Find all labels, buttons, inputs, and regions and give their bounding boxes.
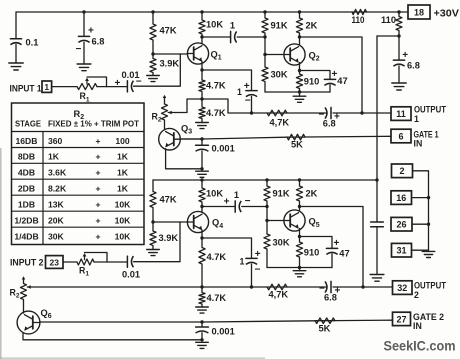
label +30V <box>434 8 460 19</box>
node: Q6 base node <box>200 320 203 323</box>
terminal box 6 (GATE 1 IN) <box>391 129 411 143</box>
resistor 3.9K (Q4 base lower) <box>150 222 179 250</box>
svg-text:IN: IN <box>413 321 422 331</box>
svg-text:4DB: 4DB <box>18 168 35 178</box>
svg-text:18: 18 <box>414 7 424 17</box>
wire: Q2 emitter to 47 cap <box>300 71 331 80</box>
svg-text:30K: 30K <box>48 232 65 242</box>
svg-text:91K: 91K <box>271 21 288 31</box>
svg-text:+: + <box>95 136 100 146</box>
ground (rail bottom) <box>370 275 384 282</box>
svg-text:10K: 10K <box>115 200 132 210</box>
wire: +30V vertical rail to channel 2 <box>376 36 378 275</box>
ground (under emitter 4.7K) <box>196 123 209 129</box>
potentiometer R1 (channel 2) <box>77 253 127 278</box>
wire: 91K to Q5 base node <box>266 207 268 221</box>
resistor 2K (Q5 collector) <box>296 180 317 207</box>
resistor 5K (gate 2) <box>315 318 335 333</box>
svg-text:2K: 2K <box>306 21 318 31</box>
wire: Q1 collector lead <box>201 37 203 44</box>
label GATE 2 IN <box>413 312 444 331</box>
svg-text:+: + <box>402 50 408 61</box>
svg-text:FIXED ± 1% + TRIM POT: FIXED ± 1% + TRIM POT <box>48 118 139 128</box>
potentiometer R1 (channel 1) <box>77 78 127 104</box>
wire: Q2 collector lead <box>299 37 301 45</box>
potentiometer R2 (channel 1) <box>152 95 168 129</box>
capacitor 1 (Q1 emitter, electrolytic) <box>237 81 257 113</box>
node: feedback junction ch1 <box>200 97 203 100</box>
wire: channel 2 supply rail <box>153 179 377 181</box>
capacitor 0.01 (channel 1 coupling) <box>115 70 142 92</box>
wire: gate 1 to 5K to box <box>202 136 391 139</box>
svg-text:30K: 30K <box>271 70 288 80</box>
svg-text:+: + <box>95 232 100 242</box>
svg-text:27: 27 <box>396 314 406 324</box>
svg-text:1K: 1K <box>117 184 129 194</box>
svg-text:+: + <box>95 168 100 178</box>
wire: Q5 collector to output riser <box>300 207 364 288</box>
svg-text:−: − <box>255 264 261 275</box>
svg-text:1: 1 <box>237 87 242 97</box>
svg-text:10K: 10K <box>115 232 132 242</box>
terminal box 1 (INPUT 1) <box>42 81 52 92</box>
label GATE 1 IN <box>414 129 439 148</box>
resistor 30K (Q2 base lower) <box>262 55 288 93</box>
terminal box 26 <box>391 217 412 231</box>
resistor 91K (Q5 base) <box>264 180 290 207</box>
capacitor 6.8 (supply filter) <box>393 36 420 83</box>
transistor Q4 <box>187 211 223 232</box>
wire: Q4 base <box>153 221 188 223</box>
svg-text:6.8: 6.8 <box>324 293 337 303</box>
svg-text:+: + <box>334 238 340 249</box>
svg-text:31: 31 <box>396 246 406 256</box>
svg-text:1/4DB: 1/4DB <box>14 232 38 242</box>
transistor Q1 <box>187 43 221 64</box>
svg-text:+: + <box>95 200 100 210</box>
svg-text:1: 1 <box>44 82 49 92</box>
wire: Q1 emitter to 1uF <box>202 70 252 90</box>
capacitor 1 (interstage coupling ch2) <box>202 190 267 212</box>
label OUTPUT 2 <box>414 281 447 301</box>
wire: +30V top rail <box>16 11 408 13</box>
transistor Q6 <box>17 308 52 334</box>
svg-text:1/2DB: 1/2DB <box>14 216 38 226</box>
svg-text:26: 26 <box>396 220 406 230</box>
ground (terminal common) <box>422 251 435 257</box>
wire: R1 wiper step <box>87 77 107 87</box>
svg-text:INPUT 2: INPUT 2 <box>10 258 44 268</box>
svg-text:4.7K: 4.7K <box>206 80 226 90</box>
svg-text:−: − <box>245 196 251 207</box>
svg-text:910: 910 <box>304 77 320 87</box>
terminal box 18 (+30V) <box>408 5 430 19</box>
wire: 0.01 to Q4 base riser <box>134 222 181 262</box>
ground (under supply 6.8) <box>392 83 406 90</box>
wire: Q3 base to gate node <box>180 138 202 140</box>
svg-text:23: 23 <box>50 257 60 267</box>
terminal box 27 (GATE 2 IN) <box>393 312 411 325</box>
node: 0.001 ch2 ground junction <box>200 338 203 341</box>
label INPUT 2 <box>10 258 44 268</box>
wire: Q4 emitter to 1uF <box>202 238 252 258</box>
svg-text:STAGE: STAGE <box>15 118 41 128</box>
wire: R2 to Q6 <box>23 312 25 313</box>
svg-text:3.9K: 3.9K <box>159 233 179 243</box>
node: Q2 collector <box>298 35 301 38</box>
wire: 110 node to bypass rail <box>377 35 399 37</box>
svg-text:1K: 1K <box>117 168 129 178</box>
node: top rail junction dots <box>82 10 400 13</box>
wire: Q6 emitter return <box>23 333 202 340</box>
node: Q2 base junction <box>263 53 266 56</box>
svg-text:8DB: 8DB <box>18 152 35 162</box>
svg-text:47K: 47K <box>160 26 177 36</box>
wire: Q2 emitter lead <box>299 63 301 71</box>
svg-text:8.2K: 8.2K <box>48 184 67 194</box>
node: Q4 collector <box>200 205 203 208</box>
wire: input 2 to R1 <box>63 261 77 263</box>
terminal box 2 <box>392 164 413 178</box>
resistor 4.7K (Q4 emitter lower) <box>199 287 227 307</box>
wire: Q5 collector lead <box>299 207 301 211</box>
capacitor 0.1 <box>10 12 38 63</box>
svg-text:INPUT 1: INPUT 1 <box>10 84 42 94</box>
capacitor 47 (Q2 emitter bypass) <box>324 69 347 92</box>
svg-text:1: 1 <box>414 114 419 124</box>
node: 91K top of bias <box>263 35 266 38</box>
svg-text:+: + <box>244 81 250 92</box>
svg-text:6.8: 6.8 <box>407 60 420 70</box>
resistor 47K (Q4 base bias) <box>150 180 177 222</box>
ground (under emitter 4.7K ch2) <box>196 307 209 313</box>
svg-text:16DB: 16DB <box>16 136 38 146</box>
ground (under 6.8) <box>77 64 91 71</box>
svg-text:+: + <box>224 197 230 208</box>
svg-text:100: 100 <box>115 136 130 146</box>
svg-text:47: 47 <box>337 76 347 86</box>
ground (under 3.9K ch2) <box>147 250 160 256</box>
svg-text:OUTPUT: OUTPUT <box>414 104 447 114</box>
wire: Q3 emitter return <box>166 149 202 169</box>
svg-text:91K: 91K <box>273 189 290 199</box>
terminal box 11 (OUTPUT 1) <box>391 107 411 121</box>
resistor 910 (Q2 emitter) <box>296 71 319 93</box>
label OUTPUT 1 <box>414 104 447 124</box>
ground (under 3.9K) <box>147 76 160 82</box>
wire: unused terminals common <box>412 171 429 250</box>
resistor 30K (Q5 base lower) <box>264 221 290 268</box>
wire: output 1 line <box>228 112 391 114</box>
capacitor 1 (Q4 emitter, electrolytic) <box>240 249 261 287</box>
resistor 4.7K (output 1 series) <box>267 110 289 128</box>
svg-text:0.001: 0.001 <box>212 143 235 153</box>
svg-text:32: 32 <box>397 283 407 293</box>
resistor 2K (Q2 collector) <box>296 12 317 37</box>
node: Q5 base junction <box>265 219 268 222</box>
svg-text:5K: 5K <box>319 323 331 333</box>
wire: Q5 base <box>267 220 284 222</box>
resistor 10K (Q1 collector) <box>199 12 223 37</box>
watermark SeekIC.com <box>384 339 456 354</box>
svg-text:+: + <box>95 152 100 162</box>
node: 0.001 ground junction <box>200 167 203 170</box>
svg-text:47K: 47K <box>160 194 177 204</box>
node: 91K ch2 junction <box>265 205 268 208</box>
svg-text:6: 6 <box>398 131 403 141</box>
svg-text:360: 360 <box>48 136 63 146</box>
svg-text:0.01: 0.01 <box>122 270 140 280</box>
svg-text:3.6K: 3.6K <box>48 168 67 178</box>
capacitor 47 (Q5 emitter bypass) <box>326 238 349 267</box>
svg-text:10K: 10K <box>115 216 132 226</box>
svg-text:110: 110 <box>381 15 396 25</box>
svg-text:1K: 1K <box>117 152 129 162</box>
wire: Q4 emitter lead <box>201 230 203 238</box>
resistor 47K (Q1 base bias) <box>150 12 177 54</box>
svg-text:+: + <box>115 78 121 89</box>
svg-text:2K: 2K <box>306 189 318 199</box>
svg-text:910: 910 <box>304 248 320 258</box>
svg-text:2DB: 2DB <box>18 184 35 194</box>
svg-text:1: 1 <box>234 190 239 200</box>
wire: Q5 emitter to 47 cap <box>300 237 333 249</box>
ground (Q5 emitter network) <box>293 268 306 277</box>
svg-text:0.001: 0.001 <box>212 327 235 337</box>
svg-text:IN: IN <box>414 138 423 148</box>
node: 910 ch2 ground junction <box>298 266 301 269</box>
scan edge artifact left <box>0 148 2 359</box>
capacitor 0.01 (channel 2 coupling) <box>122 256 140 280</box>
svg-text:1K: 1K <box>48 152 60 162</box>
svg-text:5K: 5K <box>291 139 303 149</box>
svg-text:2: 2 <box>399 166 404 176</box>
node: terminal common dots <box>427 196 430 226</box>
terminal box 16 <box>391 191 412 205</box>
svg-text:−: − <box>245 96 251 107</box>
svg-text:3.9K: 3.9K <box>160 59 180 69</box>
node: Q2 emitter <box>298 69 301 72</box>
wire: input 1 to R1 <box>52 86 77 88</box>
terminal box 32 (OUTPUT 2) <box>393 281 413 295</box>
node: 1uF bottom junction <box>250 111 253 114</box>
resistor 110 (to +30V terminal, vertical) <box>381 12 402 36</box>
svg-text:1: 1 <box>230 20 235 30</box>
svg-text:6.8: 6.8 <box>92 36 105 46</box>
svg-text:OUTPUT: OUTPUT <box>414 281 447 291</box>
wire: Q2 base <box>265 54 284 56</box>
wire: gate 1 line <box>180 138 202 140</box>
svg-text:+: + <box>255 249 261 260</box>
ground (under 0.1) <box>9 63 23 70</box>
svg-text:16: 16 <box>396 193 406 203</box>
wire: R2 ch2 wiper / output 2 line <box>27 285 392 289</box>
resistor 4.7K (Q1 emitter lower) <box>199 99 226 123</box>
resistor 91K (Q2 base) <box>262 12 288 37</box>
node: Q5 collector <box>298 205 301 208</box>
resistor 5K (gate 1) <box>287 134 305 149</box>
svg-text:10K: 10K <box>206 189 223 199</box>
svg-text:110: 110 <box>352 15 365 25</box>
svg-text:SeekIC.com: SeekIC.com <box>384 339 456 354</box>
svg-text:0.1: 0.1 <box>26 37 39 47</box>
svg-text:11: 11 <box>396 109 406 119</box>
svg-text:4,7K: 4,7K <box>269 290 289 300</box>
svg-text:+30V: +30V <box>434 8 460 19</box>
capacitor 6.8 (input bypass) <box>76 12 105 64</box>
terminal box 23 (INPUT 2) <box>46 256 64 269</box>
capacitor 0.001 (gate 2 filter) <box>196 322 235 340</box>
svg-text:+: + <box>95 216 100 226</box>
resistor 4.7K (Q4 emitter upper) <box>199 238 227 287</box>
potentiometer R2 (channel 2) <box>10 276 27 313</box>
node: rail to channel-2 feed <box>375 178 378 181</box>
svg-text:4.7K: 4.7K <box>207 293 227 303</box>
ground (Q2 emitter network) <box>293 92 306 102</box>
capacitor 1 (interstage coupling ch1) <box>202 20 265 42</box>
capacitor (rail bypass) <box>371 222 384 227</box>
wire: Q1 emitter lead <box>201 62 203 71</box>
svg-text:4,7K: 4,7K <box>270 118 290 128</box>
svg-text:20K: 20K <box>48 216 65 226</box>
wire: Q4 collector lead <box>201 207 203 213</box>
ground (under 0.001 ch1) <box>196 171 209 177</box>
svg-text:4.7K: 4.7K <box>206 108 226 118</box>
node: output 2 riser junction <box>361 285 364 288</box>
capacitor 6.8 (output 1 coupling) <box>319 107 341 128</box>
resistor 3.9K (Q1 base lower) <box>150 54 180 76</box>
label INPUT 1 <box>10 84 42 94</box>
svg-text:1DB: 1DB <box>18 200 35 210</box>
node: 910 ground junction <box>298 90 301 93</box>
resistor 910 (Q5 emitter) <box>296 237 319 268</box>
terminal box 31 <box>392 243 412 257</box>
wire: R1 ch2 wiper step <box>85 253 108 263</box>
node: output 1 riser junction <box>360 111 363 114</box>
node: Q1 collector <box>200 35 203 38</box>
svg-text:1: 1 <box>240 257 245 267</box>
node: Q3 base node <box>200 137 203 140</box>
resistor 4.7K (Q1 emitter upper) <box>199 70 226 99</box>
ground (under 0.001 ch2) <box>196 342 209 348</box>
svg-text:30K: 30K <box>273 238 290 248</box>
transistor Q2 <box>284 44 320 65</box>
wire: Q1 base <box>153 53 188 55</box>
resistor 4.7K (output 2 series) <box>267 284 288 300</box>
wire: emitter network bottom <box>265 91 330 93</box>
node: supply filter junction <box>397 34 400 37</box>
svg-text:4.7K: 4.7K <box>207 252 227 262</box>
wire: emitter network bottom ch2 <box>267 267 332 269</box>
wire: Q5 emitter lead <box>299 229 301 237</box>
resistor 10K (Q4 collector) <box>199 180 223 207</box>
svg-text:10K: 10K <box>206 20 223 30</box>
node: Q4 emitter <box>200 236 203 239</box>
node: feedback junction ch2 <box>200 285 203 288</box>
transistor Q5 <box>284 210 320 231</box>
wire: Q2 collector to output riser <box>300 37 363 113</box>
svg-text:6.8: 6.8 <box>323 118 336 128</box>
table: R2 fixed/trim values <box>12 103 145 245</box>
svg-text:2: 2 <box>414 290 419 300</box>
svg-text:47: 47 <box>339 249 349 259</box>
scan edge artifact bottom <box>0 357 265 359</box>
wire: Q6 base / gate 2 line <box>40 320 393 322</box>
wire: 0.01 to Q1 base riser <box>134 54 181 86</box>
svg-text:+: + <box>88 26 94 37</box>
node: channel 2 rail dots <box>200 178 301 181</box>
node: Q5 emitter <box>298 235 301 238</box>
node: 1uF ch2 bottom junction <box>250 285 253 288</box>
svg-text:−: − <box>76 44 82 55</box>
transistor Q3 <box>159 123 193 150</box>
resistor 110 (series, horizontal) <box>352 9 367 25</box>
node: Q4 base junction <box>151 220 154 223</box>
capacitor 0.001 (gate 1 filter) <box>196 139 235 169</box>
node: Q1 base junction <box>151 52 154 55</box>
svg-text:13K: 13K <box>48 200 65 210</box>
capacitor 6.8 (output 2 coupling) <box>319 281 341 302</box>
wire: 91K to base node <box>264 37 266 55</box>
node: Q1 emitter <box>200 68 203 71</box>
svg-text:+: + <box>95 184 100 194</box>
wire: R2 wiper to feedback node <box>168 99 228 114</box>
